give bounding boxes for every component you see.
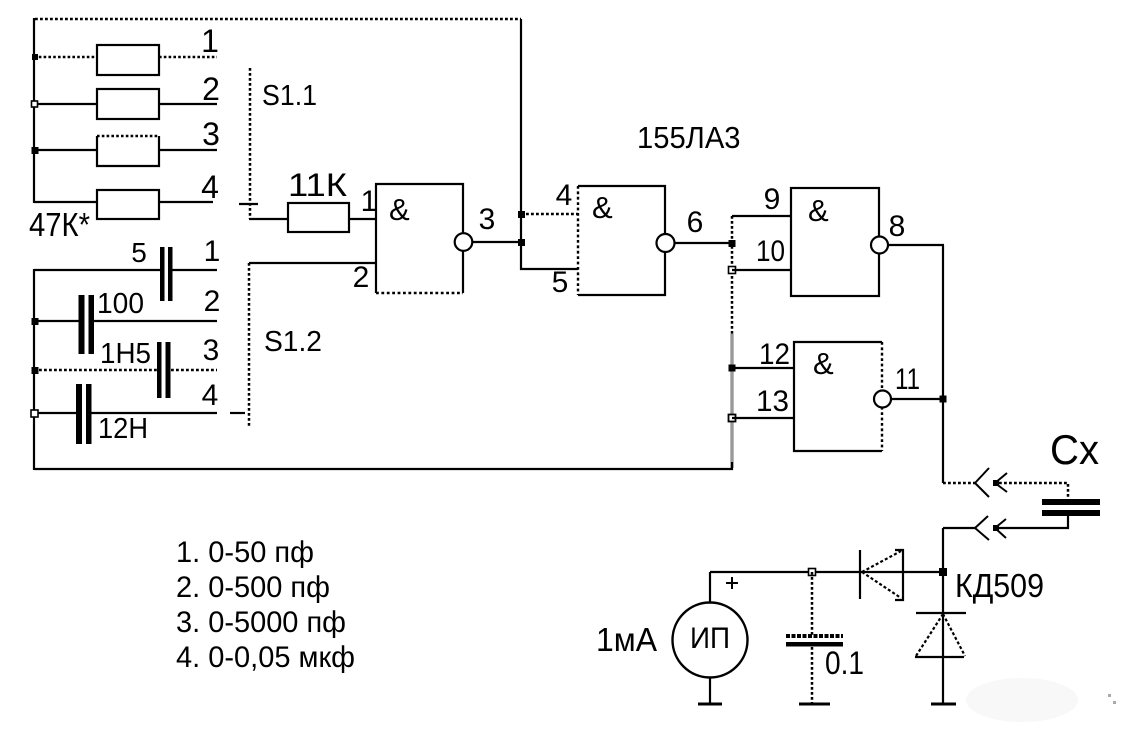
op-amp U1.3 NAND gate body	[791, 188, 879, 296]
node on left rail at R1	[32, 54, 38, 60]
U1.1 output inversion bubble	[455, 233, 473, 251]
node on caps rail at C3	[32, 367, 39, 374]
svg-text:11К: 11К	[288, 167, 347, 203]
svg-text:S1.1: S1.1	[262, 80, 317, 112]
meter ИП circle	[673, 603, 748, 678]
svg-text:8: 8	[889, 210, 906, 243]
capacitor C2	[34, 295, 217, 354]
svg-text:6: 6	[687, 206, 704, 239]
svg-text:1: 1	[201, 23, 219, 59]
op-amp U1.2 NAND gate body	[578, 186, 665, 295]
capacitor Cx plates	[1042, 499, 1100, 516]
wire U1.2 pin 6 output	[674, 242, 733, 244]
wire S1.1 pole to R5	[249, 218, 289, 220]
resistor R4	[34, 190, 213, 219]
bottom rail wire	[34, 462, 732, 469]
node diode junction	[939, 568, 947, 576]
op-amp U1.1 NAND gate body	[376, 184, 463, 293]
wire bus vertical gray lower part	[730, 334, 733, 468]
svg-text:1Н5: 1Н5	[100, 338, 151, 370]
svg-text:13: 13	[756, 385, 789, 418]
svg-text:3: 3	[202, 116, 220, 152]
wire probe P2 down to detector	[942, 528, 944, 704]
switch S1.2 pole	[230, 263, 249, 426]
capacitor C3	[34, 342, 217, 398]
wire Cx to probe P2	[999, 516, 1068, 528]
svg-text:155ЛА3: 155ЛА3	[637, 120, 741, 155]
wire U1.4 pin 11 output	[891, 398, 944, 400]
wire meter top	[709, 572, 711, 604]
svg-text:0.1: 0.1	[825, 645, 864, 681]
svg-text:4: 4	[202, 379, 219, 412]
node filter cap junction	[809, 569, 816, 576]
node at pin 3 junction	[518, 239, 525, 246]
capacitor C1	[34, 247, 217, 301]
wire to pin 12	[732, 367, 795, 369]
svg-text:10: 10	[756, 235, 785, 268]
output bus vertical wire	[942, 245, 944, 483]
svg-text:4. 0-0,05 мкф: 4. 0-0,05 мкф	[176, 641, 355, 674]
ground (filter cap)	[799, 703, 830, 706]
op-amp U1.4 NAND gate body	[794, 342, 882, 451]
svg-text:12Н: 12Н	[98, 413, 148, 445]
node pin 6 to bus	[729, 240, 736, 247]
wire to pin 10	[732, 269, 791, 271]
svg-text:КД509: КД509	[955, 567, 1044, 604]
svg-text:2. 0-500 пф: 2. 0-500 пф	[176, 571, 330, 604]
scan smudge bottom right	[966, 678, 1116, 722]
svg-text:100: 100	[97, 288, 144, 320]
diode VD2 (vertical)	[915, 613, 966, 657]
svg-text:1: 1	[204, 235, 221, 268]
ground (meter)	[698, 703, 722, 706]
svg-text:2: 2	[353, 261, 370, 294]
resistor R1	[34, 45, 217, 75]
node pin 11 to output bus	[940, 396, 947, 403]
probe connector P2	[943, 516, 1006, 540]
svg-text:4: 4	[556, 179, 573, 212]
svg-text:ИП: ИП	[690, 622, 730, 655]
range list text	[176, 536, 355, 674]
svg-text:1: 1	[361, 185, 378, 218]
svg-text:3: 3	[479, 203, 496, 236]
node at pin 4 branch	[518, 211, 525, 218]
polarity mark +	[726, 577, 738, 589]
ground (diode VD2)	[931, 703, 956, 706]
filter capacitor C5 0,1	[786, 572, 843, 704]
svg-text:2: 2	[204, 285, 221, 318]
svg-text:&: &	[592, 190, 613, 225]
svg-text:1мА: 1мА	[596, 621, 657, 658]
resistor R2	[34, 89, 217, 119]
svg-text:3: 3	[203, 334, 220, 367]
top rail wire	[35, 18, 521, 21]
svg-text:5: 5	[131, 237, 147, 268]
svg-text:5: 5	[552, 266, 569, 299]
capacitor C4	[34, 384, 217, 444]
caps left rail wire	[33, 269, 35, 470]
svg-text:9: 9	[764, 183, 781, 216]
probe connector P1	[943, 468, 1007, 497]
node on caps rail at C2	[32, 318, 39, 325]
wire to pin 4	[521, 213, 578, 216]
svg-text:47К*: 47К*	[29, 206, 90, 243]
detector main wire	[710, 571, 943, 573]
wire S1.2 pole to gate U1.1 pin 2	[249, 262, 376, 264]
svg-text:&: &	[813, 346, 834, 381]
wire R5 to gate U1.1 pin 1	[349, 218, 376, 220]
svg-text:3. 0-5000 пф: 3. 0-5000 пф	[176, 606, 346, 639]
svg-text:S1.2: S1.2	[264, 326, 322, 358]
left rail wire (resistor bank)	[33, 18, 35, 203]
node pin 13 branch	[729, 415, 736, 422]
svg-text:12: 12	[759, 338, 790, 371]
wire meter bottom	[709, 677, 711, 704]
svg-text:&: &	[808, 193, 829, 228]
node on left rail at R2	[32, 101, 38, 107]
diode VD1 (horizontal)	[860, 550, 903, 600]
switch S1.1 pole	[239, 68, 258, 219]
U1.4 output inversion bubble	[874, 391, 891, 408]
node pin 10 branch	[729, 267, 736, 274]
svg-text:1. 0-50 пф: 1. 0-50 пф	[176, 536, 314, 569]
resistor R5 11K	[288, 203, 349, 232]
wire vertical from top rail to pin 5	[521, 19, 578, 269]
U1.2 output inversion bubble	[657, 234, 675, 252]
wire to pin 9	[732, 215, 791, 217]
wire bus vertical dotted upper part	[731, 216, 734, 334]
U1.3 output inversion bubble	[871, 237, 888, 254]
resistor R3	[34, 136, 217, 166]
wire U1.3 pin 8 output	[888, 244, 944, 246]
svg-text:Сх: Сх	[1050, 426, 1099, 473]
wire probe P1 to Cx	[999, 483, 1068, 500]
node on left rail at R3	[32, 147, 39, 154]
node on caps rail at C4	[31, 410, 38, 417]
wire U1.1 pin 3 output	[472, 241, 522, 243]
node pin 12 branch	[729, 365, 736, 372]
svg-text:&: &	[389, 192, 410, 227]
svg-text:4: 4	[201, 169, 219, 205]
svg-text:2: 2	[202, 71, 220, 107]
svg-text:11: 11	[895, 363, 920, 396]
wire to pin 13	[732, 417, 795, 419]
